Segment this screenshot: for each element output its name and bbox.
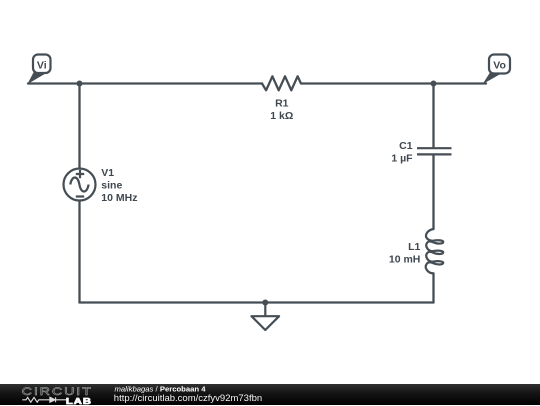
svg-text:LAB: LAB <box>66 397 92 406</box>
footer bar <box>0 384 540 406</box>
wire left vertical (Vi node to V1) <box>78 84 80 169</box>
svg-text:C1: C1 <box>399 140 413 152</box>
wire bottom rail <box>80 301 434 303</box>
node G (junction ground) <box>262 300 268 306</box>
capacitor C1 <box>417 148 452 154</box>
svg-text:sine: sine <box>101 179 122 191</box>
svg-text:http://circuitlab.com/czfyv92m: http://circuitlab.com/czfyv92m73fbn <box>114 393 262 404</box>
resistor R1 <box>262 76 302 90</box>
flag Vo <box>483 55 511 85</box>
svg-text:10 MHz: 10 MHz <box>101 192 137 204</box>
wire L1 to bottom rail <box>432 274 434 303</box>
node B (junction Vo/C1) <box>431 81 437 87</box>
CircuitLab logo text LAB <box>66 397 92 406</box>
svg-text:Vo: Vo <box>493 59 506 71</box>
flag Vi <box>27 55 50 85</box>
wire C1 to L1 <box>432 155 434 229</box>
wire top-right segment <box>302 82 486 84</box>
svg-text:CIRCUIT: CIRCUIT <box>22 384 93 397</box>
ground <box>252 303 280 331</box>
svg-text:R1: R1 <box>275 97 289 109</box>
svg-text:1 kΩ: 1 kΩ <box>270 110 293 122</box>
svg-text:Vi: Vi <box>37 59 47 71</box>
CircuitLab logo resistor-diode glyph <box>22 397 66 402</box>
svg-text:L1: L1 <box>408 241 420 253</box>
source V1 <box>64 169 96 201</box>
wire top node to C1 <box>432 84 434 148</box>
CircuitLab logo text CIRCUIT <box>22 384 93 397</box>
svg-text:V1: V1 <box>101 167 114 179</box>
svg-text:10 mH: 10 mH <box>389 254 421 266</box>
svg-text:1 µF: 1 µF <box>391 152 413 164</box>
inductor L1 <box>426 229 443 273</box>
node A (junction Vi/V1) <box>77 81 83 87</box>
svg-text:malikbagas / Percobaan 4: malikbagas / Percobaan 4 <box>115 384 207 393</box>
wire V1 to bottom rail <box>78 201 80 303</box>
wire top-left segment <box>28 82 262 84</box>
